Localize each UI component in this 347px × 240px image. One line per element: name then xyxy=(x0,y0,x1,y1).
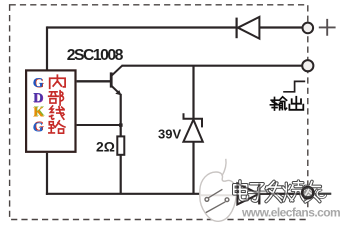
terminal + (top right) xyxy=(303,23,314,34)
diode D2 (bottom, pointing right) triangle xyxy=(237,183,258,204)
wire: top rail left segment (node + rail) xyxy=(47,26,237,28)
terminal - (bottom right) xyxy=(302,187,313,198)
resistor R1 body xyxy=(117,136,124,154)
watermark c swirl right of terminal xyxy=(317,190,325,198)
watermark 友 xyxy=(305,181,321,201)
transistor Q1 emitter stroke xyxy=(112,86,121,94)
wire: zener bottom to rail xyxy=(192,141,194,194)
redraw minus lead over watermark xyxy=(314,193,331,195)
wire: box pin 2 to emitter node xyxy=(77,124,121,126)
terminal output (middle right) xyxy=(302,60,313,71)
wire: bottom rail left segment xyxy=(46,193,238,195)
wire: resistor to bottom rail xyxy=(120,154,122,193)
wire: base wire from box to Q1 xyxy=(77,80,111,82)
dashed enclosure border xyxy=(10,5,308,220)
wire: top rail right segment to + terminal xyxy=(260,26,303,28)
label 路 (red) xyxy=(49,121,65,133)
label 出 xyxy=(289,97,303,110)
label 内 (red) xyxy=(50,75,65,88)
redraw diode D2 over watermark xyxy=(237,183,302,204)
watermark 电 xyxy=(234,181,248,200)
internal circuit box U1 xyxy=(26,70,75,151)
wire: bottom rail right segment to - terminal xyxy=(259,193,302,195)
diode D1 triangle xyxy=(238,17,260,39)
wire: left vertical from box bottom to bottom rail xyxy=(46,153,48,195)
watermark swoosh logo xyxy=(200,159,237,221)
svg-text:www.elecfans.com: www.elecfans.com xyxy=(241,206,340,220)
svg-text:K: K xyxy=(33,105,44,120)
svg-text:D: D xyxy=(33,91,43,106)
wire: left vertical from top rail to internal box xyxy=(46,26,48,69)
svg-text:2Ω: 2Ω xyxy=(96,139,115,155)
watermark 子 xyxy=(249,184,266,201)
label 部 (red) xyxy=(49,91,64,105)
node junction at emitter/pin2 xyxy=(119,123,123,126)
transistor Q1 emitter arrowhead xyxy=(115,90,121,95)
plus sign xyxy=(319,19,336,36)
diode D2 cathode bar xyxy=(258,183,260,204)
svg-text:G: G xyxy=(33,76,44,91)
svg-text:G: G xyxy=(33,121,44,136)
wire: collector rail to output terminal xyxy=(122,65,303,67)
diode D1 (top, pointing left) cathode bar xyxy=(236,18,238,39)
label 线 (red) xyxy=(50,106,65,119)
redraw terminal - ring over watermark xyxy=(302,187,313,198)
wire: zener top connection xyxy=(192,66,194,119)
output step symbol xyxy=(283,81,305,91)
watermark 烧 xyxy=(283,181,304,201)
svg-text:39V: 39V xyxy=(158,127,181,142)
svg-text:2SC1008: 2SC1008 xyxy=(67,47,124,64)
faint rail remnant through logo xyxy=(200,194,236,196)
label 输 xyxy=(270,97,286,110)
wire: emitter vertical to resistor xyxy=(120,94,122,137)
minus lead xyxy=(314,193,331,195)
zener diode D3 triangle xyxy=(183,120,202,142)
transistor Q1 base bar xyxy=(110,72,113,87)
transistor Q1 collector stroke xyxy=(112,66,123,76)
zener diode D3 39V: bar with ticks xyxy=(184,113,203,127)
watermark 发 xyxy=(266,181,282,201)
